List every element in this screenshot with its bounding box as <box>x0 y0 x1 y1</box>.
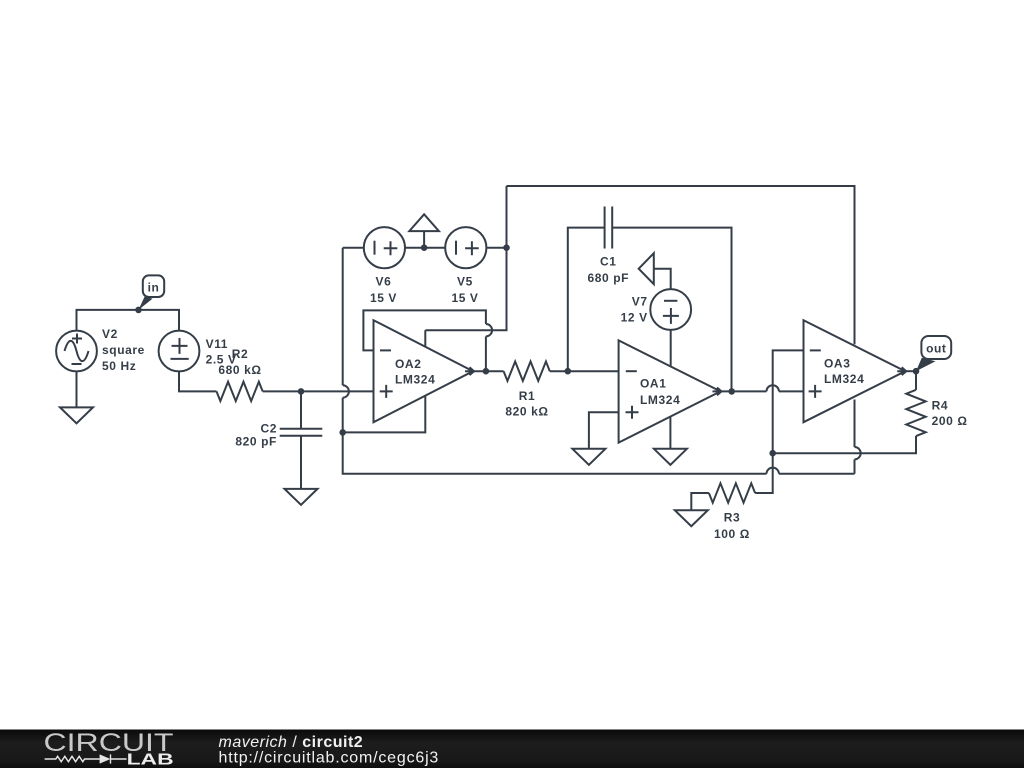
OA1 value label <box>640 377 680 408</box>
R2 value label <box>218 347 261 377</box>
wire C2 bottom <box>300 436 302 489</box>
node R2 C2 junction <box>298 388 305 395</box>
resistor R2 <box>217 382 263 401</box>
op-amp OA3 <box>804 320 907 422</box>
op-amp OA1 <box>619 340 722 442</box>
svg-text:LAB: LAB <box>127 751 174 768</box>
svg-text:V7: V7 <box>632 295 648 309</box>
ground at OA1 plus <box>572 449 605 465</box>
V6 value label <box>370 275 397 306</box>
svg-text:OA2: OA2 <box>395 357 421 371</box>
svg-text:LM324: LM324 <box>640 393 680 407</box>
svg-text:R1: R1 <box>519 389 536 403</box>
wire R3 left lead to ground <box>691 493 709 510</box>
wire OA1 plus input to ground <box>589 412 619 449</box>
wire V5 right lead <box>486 247 506 249</box>
svg-text:680 kΩ: 680 kΩ <box>218 363 261 377</box>
svg-text:R4: R4 <box>932 399 949 413</box>
ground at OA1 V- <box>654 449 687 465</box>
wire OA1 output to OA3 plus input <box>721 385 804 391</box>
voltage source V5 <box>445 227 486 268</box>
svg-text:R2: R2 <box>232 347 249 361</box>
power flag VCC arrow <box>409 214 439 247</box>
node OA3 feedback junction <box>769 450 776 457</box>
svg-text:820 kΩ: 820 kΩ <box>505 405 548 419</box>
flag out <box>916 336 951 371</box>
node OA3 output junction <box>913 368 920 375</box>
node OA1 output junction <box>728 388 735 395</box>
svg-text:http://circuitlab.com/cegc6j3: http://circuitlab.com/cegc6j3 <box>219 750 440 767</box>
R1 value label <box>505 389 548 419</box>
svg-text:V11: V11 <box>206 337 229 351</box>
node VCC arrow junction <box>421 244 428 251</box>
V11 value label <box>206 337 237 367</box>
wire C1 left branch <box>568 228 605 372</box>
svg-text:OA3: OA3 <box>824 356 850 370</box>
svg-text:15 V: 15 V <box>451 291 478 305</box>
voltage source V7 <box>650 289 691 330</box>
wire OA3 V- pin down <box>855 400 861 474</box>
R3 value label <box>714 510 750 541</box>
wire V5 node down to OA2 V+ pin <box>425 186 506 347</box>
V2 value label <box>102 327 145 373</box>
ground at R3 <box>675 510 708 526</box>
C2 value label <box>235 422 277 449</box>
svg-text:maverich / circuit2: maverich / circuit2 <box>219 734 364 751</box>
svg-text:12 V: 12 V <box>621 311 648 325</box>
flag in <box>139 275 165 310</box>
voltage source V2 <box>56 331 97 372</box>
wire OA3 output <box>905 370 916 372</box>
OA2 value label <box>395 357 435 387</box>
wire OA2 feedback loop <box>363 310 492 371</box>
svg-text:C1: C1 <box>600 255 617 269</box>
voltage source V11 <box>159 331 200 372</box>
svg-text:100 Ω: 100 Ω <box>714 527 750 541</box>
wire top supply rail <box>507 186 855 344</box>
OA3 value label <box>824 356 864 386</box>
wire feedback rail to R4 bottom <box>773 436 916 453</box>
wire R1 to OA1 minus input <box>550 370 619 372</box>
footer title text <box>219 734 440 767</box>
R4 value label <box>932 399 968 428</box>
svg-text:820 pF: 820 pF <box>235 435 277 449</box>
svg-text:LM324: LM324 <box>824 372 864 386</box>
node in junction <box>135 307 142 314</box>
wire OA1 V- pin <box>669 417 671 449</box>
wire OA2 V- pin run <box>343 396 426 433</box>
svg-text:680 pF: 680 pF <box>587 271 629 285</box>
wire V6 to V5 <box>405 247 445 249</box>
node V5 right junction <box>503 244 510 251</box>
wire V2 bottom <box>76 371 78 407</box>
wire OA3 minus input down to R3 <box>755 350 803 493</box>
svg-text:in: in <box>148 280 160 294</box>
ground below C2 <box>285 489 318 505</box>
svg-text:square: square <box>102 343 145 357</box>
svg-text:V6: V6 <box>376 275 392 289</box>
node OA2 V- junction <box>339 429 346 436</box>
wire OA2 output to R1 <box>473 370 504 372</box>
svg-text:OA1: OA1 <box>640 377 666 391</box>
wire V2 top to V11 top <box>77 310 180 331</box>
svg-text:15 V: 15 V <box>370 291 397 305</box>
C1 value label <box>587 255 629 285</box>
svg-text:200 Ω: 200 Ω <box>932 414 968 428</box>
wire C1 right branch to OA1 output <box>612 228 731 392</box>
svg-text:V5: V5 <box>457 275 473 289</box>
wire V7 bottom to OA1 V+ pin <box>670 330 672 366</box>
svg-text:V2: V2 <box>102 327 118 341</box>
svg-text:R3: R3 <box>724 510 741 524</box>
CircuitLab logo <box>44 729 174 768</box>
op-amp OA2 <box>374 320 475 422</box>
wire R2 to OA2 plus input <box>263 390 374 392</box>
capacitor C1 <box>605 207 613 249</box>
resistor R4 <box>906 390 925 436</box>
svg-text:50 Hz: 50 Hz <box>102 359 136 373</box>
resistor R3 <box>709 483 755 502</box>
power flag arrow V7 <box>639 253 671 289</box>
wire V11 bottom to R2 <box>179 371 217 391</box>
wire left vertical rail and bottom negative rail <box>343 248 855 474</box>
svg-text:LM324: LM324 <box>395 372 435 386</box>
V7 value label <box>621 295 648 325</box>
capacitor C2 <box>280 429 323 436</box>
node OA2 output junction <box>483 368 490 375</box>
wire node to C2 <box>300 391 302 428</box>
svg-text:C2: C2 <box>260 422 277 436</box>
voltage source V6 <box>364 227 405 268</box>
wire R4 top lead <box>915 371 917 390</box>
ground below V2 <box>60 407 93 423</box>
V5 value label <box>451 275 478 306</box>
resistor R1 <box>504 362 550 381</box>
svg-text:out: out <box>926 342 946 356</box>
footer bar <box>0 730 1024 768</box>
node R1 C1 junction <box>565 368 572 375</box>
